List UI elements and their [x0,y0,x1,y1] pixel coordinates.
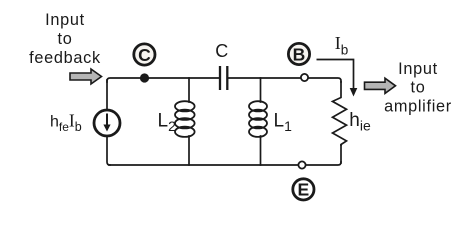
svg-text:L2: L2 [158,110,177,134]
input arrow right (amplifier input) [365,78,396,93]
wire top rail left segment [107,78,219,82]
svg-text:Input: Input [45,11,85,29]
svg-text:feedback: feedback [29,49,101,67]
wire L2 branch upper [188,78,190,102]
current source h_fe*I_b [94,110,120,136]
node E open terminal [298,161,305,168]
junction dot at node C [140,73,149,82]
svg-text:E: E [298,180,310,200]
wire left branch upper [106,80,108,110]
resistor h_ie [333,81,347,146]
svg-text:L1: L1 [274,110,293,134]
node label C [134,44,155,65]
svg-text:C: C [138,45,151,65]
wire L1 branch lower [260,136,262,165]
svg-text:C: C [215,41,228,61]
node B open terminal [301,74,308,81]
Ib current indicator wire and arrow [317,60,358,97]
svg-text:hie: hie [349,110,371,134]
svg-text:B: B [293,44,306,64]
wire L1 branch upper [260,78,262,102]
inductor L1 coil [249,101,267,137]
annotation: Input to amplifier [384,60,452,116]
capacitor C plates [220,66,227,90]
inductor L2 coil [175,101,195,137]
wire left branch lower [107,137,110,166]
svg-text:hfeIb: hfeIb [50,110,82,134]
svg-text:to: to [58,30,73,48]
annotation: Input to feedback [29,11,101,67]
wire L2 branch lower [188,136,190,165]
wire right branch lower [340,145,342,163]
svg-text:amplifier: amplifier [384,98,452,116]
wire top rail right segment [228,78,341,82]
input arrow left (feedback input) [70,69,102,84]
svg-text:to: to [411,79,426,97]
node label B [288,43,309,64]
node label E [293,179,314,200]
wire bottom rail [109,162,341,165]
svg-text:Input: Input [398,60,438,78]
svg-text:Ib: Ib [335,33,349,57]
